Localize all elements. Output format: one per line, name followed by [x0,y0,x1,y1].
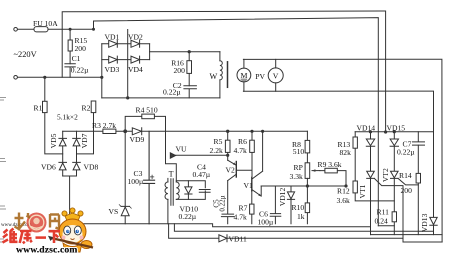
svg-text:R9 3.6k: R9 3.6k [318,160,342,169]
thyristor VS [124,131,126,224]
svg-text:0.22µ: 0.22µ [163,88,181,97]
junction dots [369,131,371,133]
resistor R16 [188,52,190,86]
diode VD10 [185,181,192,200]
svg-text:2.2k: 2.2k [210,146,223,155]
svg-text:R14: R14 [399,171,412,180]
resistor R2 [93,113,95,132]
potentiometer RP [305,163,310,179]
svg-text:5.1k×2: 5.1k×2 [57,113,78,122]
resistor R7 [251,191,253,224]
svg-text:R11: R11 [377,208,390,217]
diode VD13 [430,217,437,234]
core bar [227,62,229,88]
mascot arm [81,241,92,249]
capacitor C5 [221,181,234,224]
wire inner top rail [94,18,379,226]
resistor R3 [103,129,116,133]
mascot head [59,219,86,244]
wire 220V lower [18,76,102,78]
resistor R4 loop [125,116,165,153]
wire ground third [371,234,443,236]
svg-text:82k: 82k [340,148,352,157]
svg-text:VD4: VD4 [128,65,143,74]
svg-text:W: W [210,72,218,81]
svg-text:V: V [273,72,279,81]
svg-text:V2: V2 [226,166,235,175]
svg-text:C1: C1 [72,54,81,63]
svg-text:200: 200 [174,66,186,75]
svg-text:VU: VU [176,145,187,154]
terminal lower [14,76,18,80]
wire to W [150,51,220,53]
diode VD9 [132,128,141,135]
svg-text:VD8: VD8 [84,162,99,171]
capacitor C6 [270,186,281,224]
thyristor VT1 [367,171,375,234]
svg-text:R3 2.7k: R3 2.7k [92,121,116,130]
svg-text:0.22µ: 0.22µ [219,195,227,211]
svg-text:PV: PV [255,72,265,81]
svg-text:R5: R5 [214,137,223,146]
resistor R11 [393,222,395,235]
svg-text:R6: R6 [238,137,247,146]
svg-text:V1: V1 [244,181,253,190]
wire bottom of rectifier box [102,97,220,99]
svg-text:200: 200 [75,44,87,53]
svg-text:VD5: VD5 [49,133,58,148]
watermark zhao char [15,213,31,231]
svg-text:200: 200 [401,186,413,195]
svg-text:VD11: VD11 [229,234,247,243]
resistor R6 [251,131,253,170]
wire bridge1 row2 [102,59,150,61]
svg-text:3.6k: 3.6k [337,196,350,205]
wire main horizontal [63,130,308,132]
junction dot R4 left [124,130,127,133]
transformer T secondary [176,182,179,199]
svg-text:100µ: 100µ [128,177,144,186]
voltmeter PV [268,68,283,83]
svg-text:4.7k: 4.7k [234,213,247,222]
wire fuse line [18,28,94,30]
wire bridge2 right mid [77,131,94,154]
svg-text:VD15: VD15 [387,124,406,133]
resistor R8 [306,131,308,163]
diode VD12 [287,186,294,224]
svg-text:FU 10A: FU 10A [33,19,58,28]
diode VD14 [366,132,374,171]
wire outer top rail [62,11,385,132]
svg-text:~220V: ~220V [14,50,37,59]
svg-text:www.dzsc.com: www.dzsc.com [16,244,77,254]
wire meters top rail [243,59,442,242]
junction dot R5 top [227,130,229,132]
mascot eyes [64,226,71,235]
winding W [219,52,221,61]
wire bridge2 bottom [63,176,77,224]
wire bridge1 mid [127,30,129,98]
svg-text:VD6: VD6 [41,162,56,171]
svg-text:VT1: VT1 [358,184,367,198]
wire ground main [70,224,370,227]
svg-text:0.22µ: 0.22µ [397,147,415,156]
junction dot VU-R5 [227,154,229,156]
regulator VU [170,153,175,158]
svg-text:3.3k: 3.3k [290,172,303,181]
resistor R14 [417,145,419,235]
transistor V2 [235,162,237,178]
resistor R13 [354,132,356,181]
wire bridge1 row1 [102,43,150,45]
svg-text:4.7k: 4.7k [234,146,247,155]
watermark weiku chars [3,229,61,244]
transformer T primary [165,182,168,199]
svg-text:R12: R12 [337,187,350,196]
diode VD15 [390,132,398,171]
capacitor C1 [65,64,75,78]
resistor R1 [45,77,63,154]
wire emitter rail [261,185,346,187]
resistor R10 [306,178,308,223]
svg-text:100µ: 100µ [258,218,274,227]
svg-text:VD3: VD3 [105,65,120,74]
wire VU gate to R5 [176,154,228,156]
svg-text:0.47µ: 0.47µ [193,170,211,179]
svg-text:VD12: VD12 [278,188,287,207]
svg-text:VS: VS [109,207,119,216]
svg-text:0.22µ: 0.22µ [179,212,197,221]
diode VD5 [62,131,64,176]
svg-text:R4 510: R4 510 [136,106,158,115]
wire meters bottom rail [243,91,433,217]
diode VD3 [109,56,118,63]
svg-text:M: M [241,71,248,80]
transformer T core [171,179,173,206]
fuse FU [34,27,48,32]
mascot blush and mouth [62,236,66,240]
svg-text:510: 510 [293,147,305,156]
thyristor VT2 [391,171,399,212]
resistor R5 [227,131,229,160]
capacitor C3 [144,131,155,224]
capacitor C4 [199,190,210,193]
wire bridge1 left leg [101,44,103,98]
wire ground second [174,224,433,232]
svg-text:R2: R2 [82,104,91,113]
diode VD6 [59,162,67,170]
diode VD8 [73,162,81,170]
transistor V1 [251,170,253,191]
mascot crown [62,208,83,221]
mascot spear [51,238,93,248]
svg-text:VD13: VD13 [420,213,429,232]
diode VD11 [219,235,227,242]
svg-text:1k: 1k [297,212,305,221]
svg-text:R10: R10 [292,203,305,212]
watermark seal [27,213,47,233]
diode VD1 [109,40,118,47]
svg-text:T: T [169,169,174,178]
svg-text:VD2: VD2 [128,33,143,42]
diode VD2 [131,40,140,47]
svg-text:VD14: VD14 [357,124,376,133]
capacitor C2 [184,86,197,98]
svg-text:0.22µ: 0.22µ [71,66,89,75]
svg-text:0.24: 0.24 [375,217,388,226]
svg-text:VD7: VD7 [80,133,89,148]
wire VD11 line [169,224,443,242]
junction dot RP-emitter rail [306,185,308,187]
resistor R12 [355,193,394,201]
svg-text:VT2: VT2 [381,168,390,182]
svg-text:VD1: VD1 [105,33,120,42]
diode VD4 [131,56,140,63]
resistor R15 [69,29,71,64]
capacitor C7 [413,132,425,145]
page edge marks [0,98,6,243]
motor M [237,68,251,82]
wire secondary loop [176,181,205,200]
watermark pian char [50,214,60,229]
mascot body [63,243,82,252]
svg-text:VD9: VD9 [130,135,145,144]
svg-text:R1: R1 [34,104,43,113]
diode VD7 [76,131,78,176]
wire inner rail tap to R11 bottom [378,225,394,227]
terminal upper [14,28,18,32]
wire VD14 VD15 feed [355,131,433,133]
svg-text:R7: R7 [239,204,248,213]
wire bridge1 right leg [149,44,151,60]
resistor R9 [320,171,346,186]
